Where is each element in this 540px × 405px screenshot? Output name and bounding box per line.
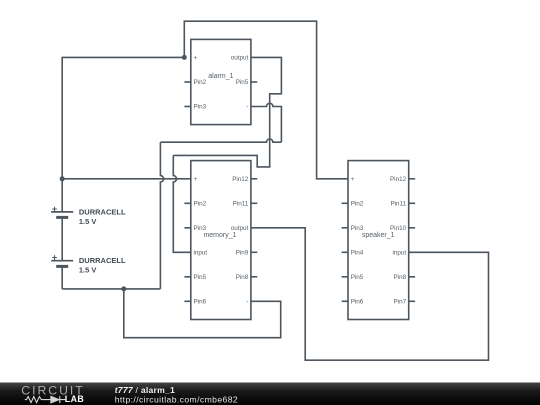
- svg-text:DURRACELL: DURRACELL: [79, 256, 126, 265]
- wire negative horizontal y142 with hop at x269.7: [160, 139, 281, 142]
- IC alarm_1 body: [184, 39, 257, 124]
- wire memory output to speaker input: [251, 228, 489, 360]
- wire battery negative down to bottom rail: [61, 266, 63, 289]
- svg-text:-: -: [246, 299, 248, 306]
- svg-text:Pin2: Pin2: [351, 201, 364, 208]
- svg-text:Pin5: Pin5: [194, 274, 207, 281]
- svg-text:LAB: LAB: [65, 394, 84, 404]
- battery V1 plus sign and value label: [52, 204, 126, 226]
- svg-text:+: +: [194, 176, 198, 183]
- svg-text:+: +: [52, 204, 58, 215]
- svg-text:output: output: [231, 55, 249, 62]
- svg-text:1.5 V: 1.5 V: [79, 217, 97, 226]
- svg-text:Pin6: Pin6: [194, 299, 207, 306]
- wire alarm output down: [173, 57, 281, 166]
- svg-text:Pin5: Pin5: [236, 79, 249, 86]
- svg-text:memory_1: memory_1: [203, 232, 236, 239]
- svg-text:1.5 V: 1.5 V: [79, 266, 97, 275]
- svg-text:input: input: [194, 250, 208, 257]
- wire junction to memory minus: [124, 289, 281, 338]
- svg-text:+: +: [194, 55, 198, 62]
- svg-text:Pin11: Pin11: [233, 201, 249, 208]
- svg-text:Pin6: Pin6: [351, 299, 364, 306]
- footer logo resistor and diode: [25, 396, 67, 403]
- battery V2 plus sign and value label: [52, 253, 126, 275]
- svg-text:Pin12: Pin12: [390, 176, 407, 183]
- svg-text:speaker_1: speaker_1: [362, 232, 395, 239]
- wire negative up to alarm minus with hop: [251, 103, 282, 142]
- wire node A up and over to speaker plus: [184, 21, 348, 179]
- svg-text:Pin8: Pin8: [236, 274, 249, 281]
- wire negative rail up left vertical with hop: [160, 142, 163, 289]
- svg-text:Pin11: Pin11: [390, 201, 406, 208]
- svg-text:Pin5: Pin5: [351, 274, 364, 281]
- svg-text:Pin12: Pin12: [232, 176, 249, 183]
- svg-text:+: +: [52, 253, 58, 264]
- svg-text:alarm_1: alarm_1: [208, 73, 233, 80]
- svg-text:input: input: [392, 250, 406, 257]
- IC speaker_1 body: [342, 161, 416, 320]
- svg-text:+: +: [351, 176, 355, 183]
- svg-text:Pin2: Pin2: [194, 201, 207, 208]
- svg-text:Pin9: Pin9: [236, 250, 249, 257]
- svg-text:Pin4: Pin4: [351, 250, 364, 257]
- svg-text:Pin2: Pin2: [194, 79, 207, 86]
- svg-text:Pin7: Pin7: [393, 299, 406, 306]
- junction node at battery plus branch: [60, 176, 65, 181]
- svg-text:http://circuitlab.com/cmbe682: http://circuitlab.com/cmbe682: [115, 394, 238, 404]
- svg-text:Pin3: Pin3: [194, 104, 207, 111]
- svg-text:-: -: [246, 104, 248, 111]
- wire alarm output net vertical to memory input with hop: [173, 155, 191, 252]
- battery V1 DURRACELL plates: [51, 212, 73, 218]
- battery V2 DURRACELL plates: [51, 261, 73, 267]
- wire bottom negative rail: [62, 288, 160, 290]
- junction node on bottom rail: [121, 286, 126, 291]
- IC memory_1 body: [184, 161, 257, 320]
- wire battery mid section: [61, 217, 63, 260]
- speaker_1 pin labels: [351, 176, 407, 306]
- alarm_1 pin labels: [194, 55, 249, 111]
- wire battery positive to alarm plus node: [62, 57, 184, 212]
- svg-text:DURRACELL: DURRACELL: [79, 207, 126, 216]
- svg-text:Pin8: Pin8: [393, 274, 406, 281]
- memory_1 pin labels: [194, 176, 249, 306]
- wire battery branch to memory plus (hops over two verticals): [62, 178, 191, 180]
- footer bar: [0, 383, 540, 405]
- junction node at alarm plus: [182, 55, 187, 60]
